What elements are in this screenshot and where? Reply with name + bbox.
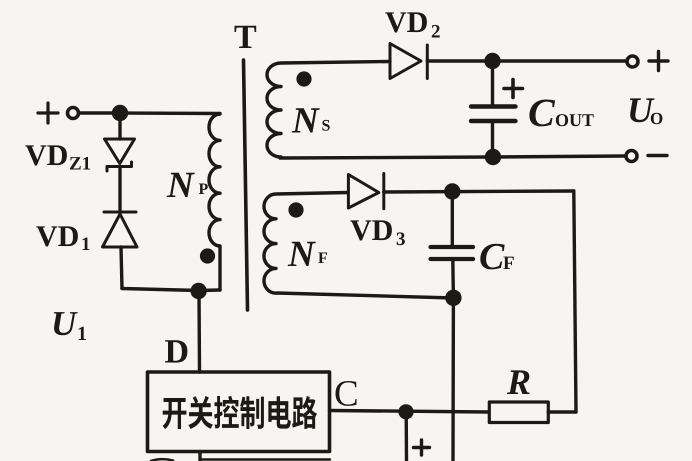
node CF top junction [444, 183, 460, 199]
label R [507, 370, 530, 394]
label + (output) [649, 52, 668, 71]
wire node to primary top [120, 111, 220, 115]
label COUT [529, 100, 593, 127]
label NF [288, 242, 327, 266]
label + (COUT polarity) [504, 80, 523, 98]
wire input to node [79, 111, 113, 114]
input terminal [68, 108, 79, 119]
wire node D to box [197, 291, 201, 372]
label NS [292, 108, 330, 132]
node NF phase dot [288, 202, 303, 217]
wire primary bottom [122, 289, 220, 291]
wire NS bottom to - terminal [280, 156, 625, 158]
node R wire junction [398, 404, 413, 419]
zener VDZ1 [105, 139, 135, 171]
wire VD3 to right corner [384, 191, 574, 192]
label D [165, 340, 187, 362]
wire junction to COUT [491, 61, 494, 106]
label U1 [54, 312, 86, 340]
node primary bottom junction [190, 283, 206, 299]
label + (input positive) [38, 103, 58, 123]
capacitor COUT [471, 107, 516, 122]
diode VD1 [103, 212, 138, 247]
wire junction down to CF [451, 192, 454, 248]
node NF bottom junction [445, 290, 461, 306]
text 开关控制电路 [163, 396, 318, 429]
label + (bottom capacitor polarity) [414, 440, 430, 455]
output + terminal [627, 56, 638, 67]
wire junction down to bottom edge [405, 412, 409, 461]
label VD1 [36, 226, 89, 250]
wire junction down through crossing to bottom edge [451, 298, 455, 461]
label CF [480, 244, 513, 270]
label UO [630, 98, 663, 124]
label T [235, 26, 257, 48]
wire NF bottom [277, 293, 453, 298]
wire VD2 to + terminal [427, 59, 626, 62]
node NS phase dot [296, 71, 311, 86]
winding NF [264, 193, 348, 294]
resistor R [489, 402, 548, 423]
wire CF to bottom junction [451, 259, 455, 298]
label VDZ1 [25, 145, 90, 169]
wire box to R [330, 411, 490, 413]
diode VD2 [390, 44, 427, 79]
label C [336, 381, 357, 406]
wire COUT to bottom [491, 121, 494, 157]
wire below box [198, 452, 201, 461]
label NP [167, 173, 208, 197]
core T line [244, 60, 248, 310]
node output top junction [484, 53, 500, 69]
node output bottom junction [485, 149, 501, 165]
capacitor CF [431, 247, 473, 259]
label VD3 [350, 220, 405, 245]
wire partial element below box [202, 458, 330, 460]
label - (output) [648, 154, 667, 157]
node input junction [112, 105, 128, 121]
output - terminal [626, 151, 637, 162]
node NP phase dot [200, 248, 215, 263]
winding NP [209, 114, 220, 290]
wire node down to VDZ1 [118, 119, 121, 139]
wire R to right riser [548, 410, 576, 413]
wire right side down to R [574, 191, 576, 412]
terminal arc below box [151, 459, 173, 461]
label VD2 [385, 12, 439, 37]
diode VD3 [348, 174, 383, 209]
control box 开关控制电路 [148, 372, 330, 452]
winding NS [267, 62, 390, 158]
wire VD1 down to corner [121, 247, 122, 289]
wire VDZ1 to VD1 [118, 167, 121, 211]
